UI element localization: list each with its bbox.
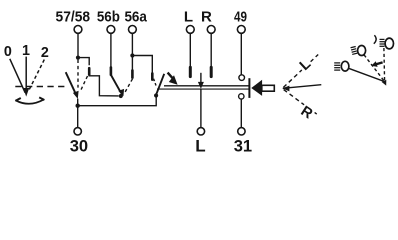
svg-text:57/58: 57/58 (56, 9, 91, 26)
svg-text:L: L (195, 136, 205, 155)
svg-text:L: L (184, 9, 193, 26)
svg-text:1: 1 (22, 43, 30, 59)
svg-text:56a: 56a (124, 9, 147, 26)
svg-text:56b: 56b (97, 9, 120, 26)
svg-text:31: 31 (234, 136, 252, 155)
svg-text:0: 0 (4, 44, 12, 60)
svg-text:49: 49 (234, 9, 247, 26)
svg-text:R: R (201, 9, 212, 26)
svg-text:30: 30 (70, 136, 88, 155)
svg-text:2: 2 (41, 45, 49, 61)
